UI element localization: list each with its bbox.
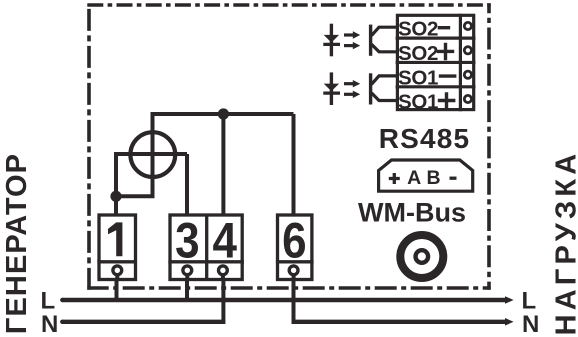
L line (left to right with arrow) <box>62 298 506 302</box>
wire: top horizontal from CT to terminal 6 drop <box>153 112 294 116</box>
wire: vertical from top-wire junction to terminal 4 <box>221 114 225 215</box>
optocoupler U2 LED cathode bar <box>323 91 340 94</box>
wire: terminal 1 down to L line <box>115 281 119 300</box>
WM-Bus coax connector center pin <box>416 250 429 263</box>
SO terminal block outer box <box>396 14 476 112</box>
RS485 connector outline <box>379 160 473 191</box>
optocoupler U1 light arrow lower <box>344 44 354 47</box>
meter enclosure dash-dot border bottom <box>87 286 490 290</box>
wire: left vertical from cross to terminal 1 <box>114 152 118 215</box>
terminal 1 screw circle <box>113 266 122 275</box>
optocoupler U2 collector wire to SO1- <box>372 76 398 84</box>
optocoupler U2 (SO1) LED wire <box>330 72 333 105</box>
optocoupler U1 LED triangle <box>324 35 339 43</box>
terminal 3+4 box <box>168 215 244 280</box>
meter enclosure dash-dot border top <box>87 3 490 7</box>
meter enclosure dash-dot border left <box>87 9 91 290</box>
optocoupler U1 phototransistor bar <box>369 25 372 56</box>
WM-Bus coax connector outer ring <box>400 235 443 278</box>
svg-text:N: N <box>41 311 58 337</box>
terminal 1 label <box>108 222 122 256</box>
svg-text:SO1: SO1 <box>398 66 438 89</box>
svg-text:4: 4 <box>212 212 236 268</box>
RS485 connector pin label - <box>450 177 457 180</box>
meter enclosure dash-dot border right <box>487 3 491 290</box>
wire: terminal 4 screw stub <box>221 275 225 281</box>
svg-text:A: A <box>407 167 421 189</box>
wire: terminal 3 screw stub <box>185 275 189 281</box>
svg-text:НАГРУЗКА: НАГРУЗКА <box>551 150 578 336</box>
optocoupler U2 LED triangle <box>324 84 339 92</box>
node B junction dot on top wire (223,114) <box>218 108 229 119</box>
optocoupler U2 light arrow lower <box>344 93 354 96</box>
terminal 1 box <box>97 215 135 280</box>
wire: right vertical from cross to terminal 3 <box>185 154 189 215</box>
terminal 4 screw circle <box>219 266 228 275</box>
svg-text:SO2: SO2 <box>398 18 438 41</box>
current transformer CT circle <box>130 132 175 177</box>
svg-text:6: 6 <box>282 212 306 268</box>
optocoupler U2 light arrow upper <box>344 82 354 85</box>
SO1+ pin circle <box>464 95 471 102</box>
wire: terminal 3 down to L line <box>185 281 189 300</box>
svg-text:SO2: SO2 <box>398 42 438 65</box>
wire: cross horizontal through CT circle <box>116 152 187 156</box>
SO2+ pin circle <box>464 47 471 54</box>
optocoupler U1 LED cathode bar <box>323 43 340 46</box>
wire: terminal 1 screw to box bottom stub <box>115 275 119 281</box>
wire: terminal 4 down to N line (crosses L) <box>221 281 225 324</box>
SO1- pin circle <box>464 71 471 78</box>
optocoupler U1 emitter wire to SO2+ <box>372 44 398 52</box>
arrowhead N line <box>505 318 514 326</box>
svg-text:N: N <box>522 311 539 337</box>
svg-text:3: 3 <box>175 212 199 268</box>
SO2- pin circle <box>464 22 471 29</box>
svg-text:SO1: SO1 <box>398 91 438 114</box>
N line left segment to terminal 4 <box>62 320 225 324</box>
optocoupler U2 phototransistor bar <box>369 73 372 104</box>
wire: terminal 6 screw stub <box>292 275 296 281</box>
svg-text:B: B <box>427 167 441 189</box>
arrowhead L line <box>505 296 514 304</box>
wire: vertical from top wire down to terminal 6 <box>292 114 296 215</box>
optocoupler U1 collector wire to SO2- <box>372 27 398 35</box>
terminal 6 screw circle <box>289 266 298 275</box>
optocoupler U2 emitter wire to SO1+ <box>372 93 398 101</box>
optocoupler U1 (SO2) LED wire <box>330 24 333 57</box>
wire: terminal 6 down to right N line (crosses border and L) <box>292 281 296 324</box>
optocoupler U1 light arrow upper <box>344 33 354 36</box>
RS485 connector pin label + <box>389 173 400 184</box>
wire: CT primary vertical through circle, bottom L-bend to node A <box>116 112 153 196</box>
terminal 3 screw circle <box>183 266 192 275</box>
svg-text:RS485: RS485 <box>379 123 471 154</box>
svg-text:WM-Bus: WM-Bus <box>358 197 466 227</box>
terminal 6 box <box>276 215 314 280</box>
node A junction dot (116,196) <box>110 191 121 202</box>
N line right segment from terminal 6 with arrow <box>292 320 506 324</box>
svg-text:ГЕНЕРАТОР: ГЕНЕРАТОР <box>1 153 33 334</box>
